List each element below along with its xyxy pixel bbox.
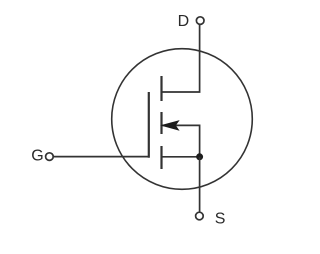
arrow head on body bbox=[162, 121, 178, 130]
svg-text:G: G bbox=[31, 148, 43, 165]
wire source rail bbox=[162, 156, 200, 158]
gate bar bbox=[148, 92, 150, 158]
wire gate bbox=[54, 156, 149, 158]
svg-text:S: S bbox=[215, 210, 226, 227]
channel middle segment bbox=[160, 112, 162, 134]
wire body arrow line bbox=[163, 125, 200, 156]
terminal S bbox=[196, 212, 204, 220]
wire source down bbox=[199, 157, 201, 212]
channel top segment bbox=[160, 76, 162, 101]
transistor Q1 body circle bbox=[112, 49, 253, 190]
terminal D bbox=[196, 17, 204, 25]
terminal G bbox=[46, 153, 54, 161]
svg-text:D: D bbox=[178, 13, 190, 30]
wire drain connector bbox=[162, 25, 200, 92]
channel bottom segment bbox=[160, 146, 162, 169]
junction dot bbox=[196, 153, 203, 160]
